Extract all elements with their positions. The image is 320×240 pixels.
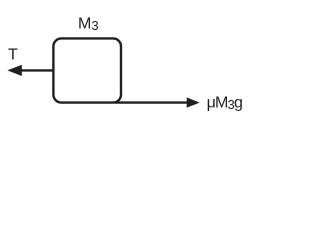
svg-text:M3: M3 [78, 15, 99, 33]
svg-text:μM3g: μM3g [207, 94, 243, 112]
svg-text:T: T [8, 47, 18, 64]
